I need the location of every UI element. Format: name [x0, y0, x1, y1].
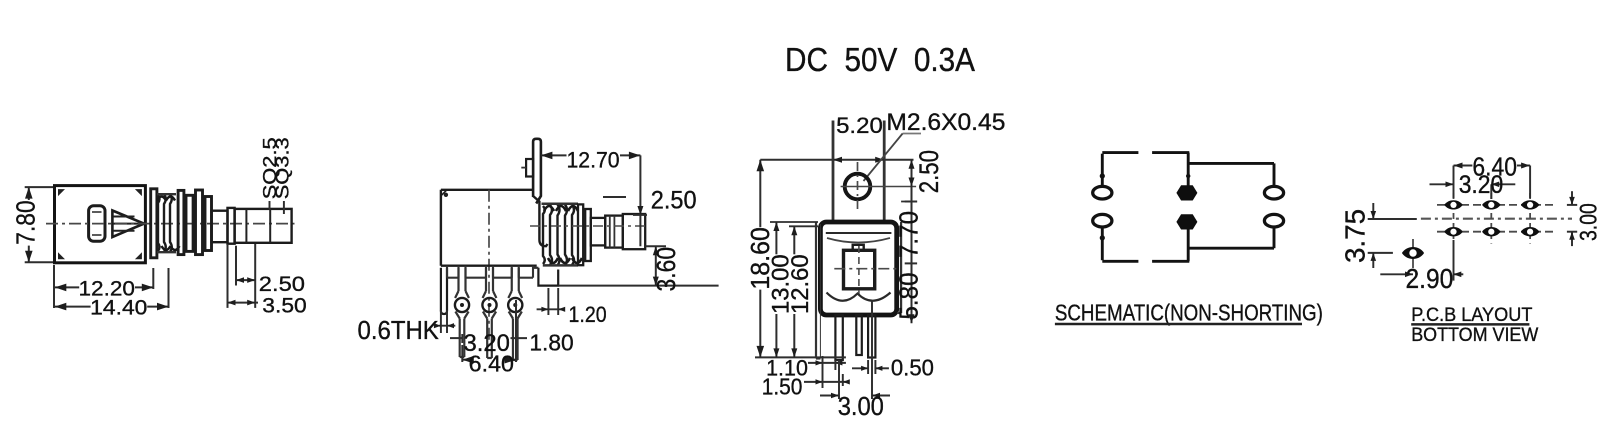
- svg-text:BOTTOM VIEW: BOTTOM VIEW: [1411, 324, 1539, 346]
- svg-text:SCHEMATIC(NON-SHORTING): SCHEMATIC(NON-SHORTING): [1055, 299, 1323, 325]
- svg-text:2.50: 2.50: [914, 150, 944, 193]
- svg-text:5.80: 5.80: [894, 273, 924, 320]
- svg-text:P.C.B LAYOUT: P.C.B LAYOUT: [1411, 304, 1532, 326]
- svg-text:12.70: 12.70: [567, 147, 620, 172]
- svg-text:3.00: 3.00: [838, 391, 884, 421]
- svg-text:7.80: 7.80: [11, 200, 41, 244]
- svg-text:M2.6X0.45: M2.6X0.45: [886, 109, 1005, 136]
- svg-text:5.20: 5.20: [836, 113, 883, 138]
- svg-text:SQ3.3: SQ3.3: [273, 137, 293, 199]
- svg-text:6.40: 6.40: [469, 351, 514, 377]
- svg-text:14.40: 14.40: [90, 296, 147, 319]
- svg-text:3.75: 3.75: [1340, 209, 1371, 263]
- svg-text:0.50: 0.50: [891, 355, 934, 381]
- svg-text:3.60: 3.60: [651, 247, 681, 292]
- svg-text:DC 50V 0.3A: DC 50V 0.3A: [785, 41, 975, 78]
- svg-text:7.70: 7.70: [894, 211, 924, 258]
- svg-text:1.20: 1.20: [569, 302, 607, 327]
- svg-text:2.90: 2.90: [1406, 263, 1454, 294]
- svg-text:1.50: 1.50: [762, 374, 803, 400]
- svg-text:2.50: 2.50: [651, 186, 697, 214]
- svg-text:0.6THK: 0.6THK: [358, 315, 440, 345]
- svg-text:3.20: 3.20: [1459, 171, 1504, 199]
- svg-text:1.80: 1.80: [529, 329, 573, 355]
- svg-text:2.50: 2.50: [259, 273, 305, 296]
- svg-text:3.00: 3.00: [1576, 203, 1603, 241]
- svg-text:3.50: 3.50: [262, 294, 306, 317]
- svg-text:12.60: 12.60: [787, 254, 814, 314]
